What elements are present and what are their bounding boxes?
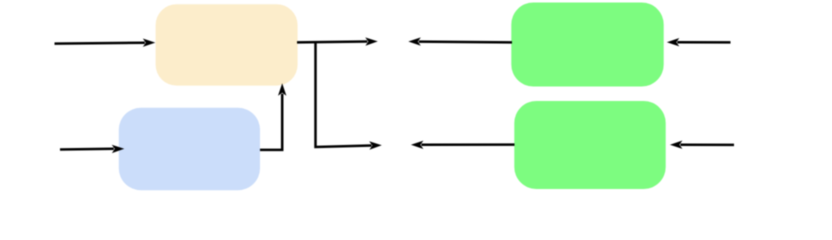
wire: green bottom output arrow left (411, 141, 515, 149)
wire: junction elbow down from peach output line to lower-right arrow (316, 42, 382, 150)
block: blue box (bottom-left) (119, 108, 260, 190)
wire: arrow into green bottom right (670, 141, 734, 149)
wire: arrow into peach box left (55, 39, 156, 47)
block: green box bottom-right (514, 101, 665, 189)
block: peach box (top-left) (156, 4, 298, 85)
wire: blue box output elbow up into peach box bottom (260, 83, 286, 150)
wire: peach box output arrow right (297, 37, 378, 45)
wire: arrow into blue box left (60, 145, 124, 153)
wire: green top output arrow left (408, 37, 512, 45)
wire: arrow into green top right (667, 38, 731, 46)
block: green box top-right (511, 3, 663, 87)
